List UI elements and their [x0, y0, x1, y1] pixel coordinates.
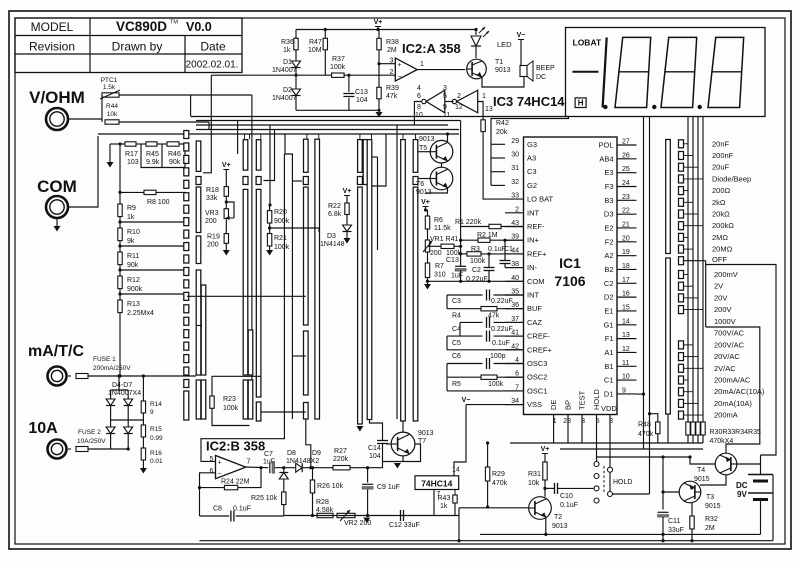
- svg-text:D2: D2: [604, 293, 614, 302]
- svg-text:C3: C3: [527, 167, 537, 176]
- svg-text:2V/AC: 2V/AC: [714, 364, 736, 373]
- wire T4 base: [690, 457, 715, 464]
- V- arrow below bar G: [356, 426, 363, 432]
- wire D8 to R27: [302, 467, 333, 469]
- svg-text:104: 104: [369, 453, 381, 460]
- range contacts DCV section: [679, 271, 684, 279]
- svg-text:11.5k: 11.5k: [434, 225, 451, 232]
- svg-text:REF-: REF-: [527, 222, 545, 231]
- switch bar G1b: [363, 140, 368, 185]
- wire HOLD to net: [613, 493, 650, 495]
- wire R44 to bus: [119, 121, 209, 123]
- svg-text:BP: BP: [564, 400, 573, 410]
- svg-text:R22: R22: [328, 203, 341, 210]
- svg-text:LED: LED: [497, 40, 512, 49]
- fuse FUSE2: [68, 448, 71, 450]
- wire R20/R21 junction: [270, 228, 319, 232]
- LCD H annunciator: [575, 98, 586, 108]
- V- arrow below R7: [427, 281, 429, 284]
- svg-text:20V/AC: 20V/AC: [714, 352, 740, 361]
- svg-text:V+: V+: [421, 199, 430, 206]
- svg-text:8: 8: [417, 104, 421, 111]
- svg-text:C10: C10: [560, 493, 573, 500]
- LCD minus sign: [572, 71, 598, 73]
- svg-text:C11: C11: [668, 518, 680, 525]
- svg-text:−: −: [218, 471, 222, 478]
- svg-text:470k: 470k: [492, 480, 508, 487]
- wire op-amp out to T1 base: [417, 69, 465, 71]
- svg-text:11: 11: [443, 112, 450, 119]
- svg-text:V+: V+: [541, 446, 550, 453]
- V- below R19: [225, 243, 227, 250]
- svg-text:C14: C14: [368, 445, 381, 452]
- svg-text:C2: C2: [472, 267, 481, 274]
- svg-text:2: 2: [457, 93, 461, 100]
- svg-text:C7: C7: [264, 451, 273, 458]
- svg-text:200mA/250V: 200mA/250V: [93, 365, 131, 372]
- svg-text:9k: 9k: [127, 238, 135, 245]
- DCV section box: [705, 261, 707, 327]
- svg-text:G2: G2: [527, 181, 537, 190]
- svg-text:200: 200: [205, 218, 217, 225]
- svg-text:R16: R16: [150, 450, 162, 457]
- svg-text:B3: B3: [604, 196, 613, 205]
- svg-text:0.99: 0.99: [150, 435, 163, 442]
- svg-text:0.1uF: 0.1uF: [560, 502, 578, 509]
- switch bar G2: [367, 140, 372, 420]
- wire node 237: [237, 121, 239, 155]
- svg-text:R32: R32: [705, 516, 718, 523]
- svg-text:20V: 20V: [714, 293, 727, 302]
- svg-text:IC1: IC1: [559, 255, 581, 271]
- svg-text:20uF: 20uF: [712, 163, 730, 172]
- bus wires top: [191, 116, 569, 118]
- svg-text:C6: C6: [452, 353, 461, 360]
- wire FUSE1 to switch: [88, 375, 196, 377]
- svg-text:10k: 10k: [528, 480, 540, 487]
- svg-text:B1: B1: [604, 362, 613, 371]
- svg-text:R23: R23: [223, 396, 236, 403]
- svg-text:1k: 1k: [440, 503, 448, 510]
- svg-text:R11: R11: [127, 253, 139, 260]
- svg-text:R28: R28: [316, 499, 329, 506]
- svg-text:IC2:A 358: IC2:A 358: [402, 41, 461, 56]
- svg-text:AB4: AB4: [599, 154, 613, 163]
- svg-text:R36: R36: [281, 39, 294, 46]
- V- arrow R17 node: [109, 144, 111, 162]
- wire COM to bus: [69, 136, 98, 207]
- range contact OFF: [679, 257, 684, 265]
- svg-text:D4-D7: D4-D7: [112, 382, 132, 389]
- wire bars to bus: [264, 130, 275, 181]
- wire pin DE down: [553, 415, 555, 444]
- svg-text:2M: 2M: [387, 47, 397, 54]
- svg-text:D2: D2: [283, 87, 292, 94]
- svg-text:2MΩ: 2MΩ: [712, 233, 728, 242]
- svg-text:Date: Date: [200, 40, 226, 54]
- svg-text:IN-: IN-: [527, 263, 538, 272]
- svg-text:74HC14: 74HC14: [421, 478, 452, 488]
- svg-text:G3: G3: [527, 140, 537, 149]
- svg-text:C1: C1: [604, 376, 614, 385]
- wire T5 T6 links: [418, 151, 431, 153]
- svg-text:G1: G1: [603, 320, 613, 329]
- svg-text:C2: C2: [604, 279, 614, 288]
- wire V- to 74HC14: [454, 405, 466, 476]
- svg-text:R20: R20: [274, 209, 287, 216]
- svg-text:DE: DE: [549, 400, 558, 410]
- wire T2 base: [459, 507, 529, 509]
- svg-text:9015: 9015: [705, 503, 721, 510]
- svg-text:10M: 10M: [308, 47, 322, 54]
- switch bar D: [256, 140, 261, 170]
- svg-text:20nF: 20nF: [712, 139, 730, 148]
- wire bridge bottom: [110, 434, 112, 449]
- svg-text:9V: 9V: [737, 490, 747, 499]
- svg-text:30: 30: [511, 152, 519, 159]
- wire R45 R46 box: [141, 144, 185, 168]
- svg-text:200nF: 200nF: [712, 151, 734, 160]
- diode D6: [106, 427, 115, 434]
- svg-text:R18: R18: [206, 187, 219, 194]
- switch bar B2: [201, 285, 206, 375]
- fuse FUSE1: [68, 375, 71, 377]
- svg-text:E1: E1: [604, 306, 613, 315]
- wire pin BP down: [567, 415, 569, 444]
- svg-text:C3: C3: [452, 298, 461, 305]
- svg-text:VSS: VSS: [527, 400, 542, 409]
- wire OFF to battery rail: [684, 260, 706, 262]
- wire bar tops to bus: [244, 134, 246, 139]
- svg-text:HOLD: HOLD: [592, 389, 601, 410]
- svg-text:470k: 470k: [638, 431, 654, 438]
- wire COM row: [428, 280, 524, 282]
- svg-text:E3: E3: [604, 168, 613, 177]
- wire 1000V section link: [706, 327, 760, 453]
- svg-text:220k: 220k: [333, 456, 349, 463]
- svg-text:100k: 100k: [274, 244, 290, 251]
- ground below COM: [56, 218, 58, 226]
- svg-text:IN+: IN+: [527, 236, 540, 245]
- diode D7: [124, 427, 133, 434]
- svg-text:T1: T1: [495, 59, 503, 66]
- IC U1 IC1 7106 body: [524, 137, 618, 415]
- node chain vertical: [460, 121, 462, 267]
- svg-text:9013: 9013: [419, 136, 435, 143]
- wire T3 base: [663, 491, 679, 493]
- wire R27 to C9/T7: [357, 467, 368, 469]
- svg-text:200V: 200V: [714, 305, 732, 314]
- svg-text:1k: 1k: [127, 214, 135, 221]
- svg-text:R44: R44: [106, 103, 118, 110]
- wire T4 collector to battery: [737, 464, 761, 475]
- svg-text:100k: 100k: [330, 64, 346, 71]
- svg-text:HOLD: HOLD: [613, 479, 632, 486]
- svg-text:R7: R7: [435, 263, 444, 270]
- wire PTC1 to node: [119, 94, 252, 96]
- svg-text:F3: F3: [605, 182, 614, 191]
- svg-text:BUF: BUF: [527, 304, 542, 313]
- svg-text:CAZ: CAZ: [527, 318, 542, 327]
- svg-text:9013: 9013: [418, 430, 434, 437]
- ground below R16: [142, 460, 144, 468]
- svg-text:DC: DC: [736, 481, 748, 490]
- svg-text:REF+: REF+: [527, 249, 547, 258]
- svg-text:100k: 100k: [223, 405, 239, 412]
- wire bar right bottom: [667, 414, 669, 443]
- svg-text:R10: R10: [127, 229, 140, 236]
- switch bar E: [304, 139, 309, 172]
- svg-text:1000V: 1000V: [714, 317, 736, 326]
- svg-text:20k: 20k: [496, 129, 508, 136]
- svg-text:D8: D8: [287, 450, 296, 457]
- svg-text:T5: T5: [419, 145, 427, 152]
- svg-text:F2: F2: [605, 237, 614, 246]
- svg-text:R4: R4: [452, 313, 461, 320]
- svg-text:D3: D3: [327, 233, 336, 240]
- svg-text:R24 22M: R24 22M: [221, 479, 250, 486]
- wire IC2:B output: [246, 466, 268, 469]
- wire R13 to fuse node: [119, 313, 121, 376]
- svg-text:9: 9: [150, 409, 154, 416]
- svg-text:R25 10k: R25 10k: [251, 495, 278, 502]
- switch bar B: [196, 141, 201, 171]
- svg-text:0.22uF: 0.22uF: [466, 276, 488, 283]
- svg-text:−: −: [398, 74, 402, 81]
- svg-text:C13: C13: [355, 89, 368, 96]
- svg-text:POL: POL: [598, 141, 613, 150]
- svg-text:2V: 2V: [714, 282, 723, 291]
- svg-text:A3: A3: [527, 154, 536, 163]
- svg-text:200mA/AC: 200mA/AC: [714, 376, 751, 385]
- svg-text:3: 3: [443, 85, 447, 92]
- svg-text:14: 14: [452, 467, 460, 474]
- svg-text:CREF-: CREF-: [527, 332, 550, 341]
- svg-text:2kΩ: 2kΩ: [712, 198, 726, 207]
- svg-text:R27: R27: [334, 448, 347, 455]
- svg-text:100k: 100k: [470, 258, 486, 265]
- svg-text:2: 2: [390, 69, 394, 76]
- LCD digit 4: [708, 37, 744, 107]
- wire HOLD aux: [609, 472, 611, 491]
- svg-text:310: 310: [434, 272, 446, 279]
- wire R23 top: [212, 376, 261, 396]
- svg-text:100k: 100k: [488, 381, 504, 388]
- svg-text:6: 6: [210, 468, 214, 475]
- svg-text:1: 1: [420, 61, 424, 68]
- svg-text:R45: R45: [146, 151, 159, 158]
- wire R7 bottom to COM rail: [427, 278, 429, 282]
- wire bus drop 285: [285, 134, 292, 419]
- svg-text:10k: 10k: [107, 111, 118, 118]
- wire OSC1 loop: [447, 390, 524, 392]
- capacitor C1: [500, 260, 511, 262]
- svg-text:T3: T3: [706, 494, 714, 501]
- svg-text:6: 6: [417, 93, 421, 100]
- svg-text:IC2:B 358: IC2:B 358: [206, 439, 265, 454]
- svg-text:D1: D1: [604, 389, 614, 398]
- svg-text:10A: 10A: [28, 420, 58, 437]
- wire LCD to IC1 bus: [643, 117, 645, 450]
- svg-text:OSC2: OSC2: [527, 373, 547, 382]
- switch bar C: [243, 140, 248, 170]
- wire C4 link: [459, 322, 461, 336]
- LCD digit 1: [603, 37, 607, 107]
- rail V- bottom: [480, 533, 761, 535]
- svg-text:2.25Mx4: 2.25Mx4: [127, 310, 154, 317]
- svg-text:F1: F1: [605, 334, 614, 343]
- svg-text:6.8k: 6.8k: [328, 211, 342, 218]
- svg-text:mA/T/C: mA/T/C: [28, 343, 84, 360]
- wire battery plus down: [772, 475, 774, 541]
- wire T7 base: [386, 443, 391, 445]
- svg-text:R12: R12: [127, 277, 140, 284]
- svg-text:33uF: 33uF: [668, 527, 684, 534]
- svg-text:R21: R21: [274, 235, 287, 242]
- svg-text:R6: R6: [434, 217, 443, 224]
- svg-text:C13: C13: [446, 257, 459, 264]
- svg-text:1N4148: 1N4148: [320, 241, 345, 248]
- svg-text:12: 12: [455, 104, 463, 111]
- wire bus drop 384: [372, 134, 386, 186]
- svg-text:Diode/Beep: Diode/Beep: [712, 174, 751, 183]
- wire T7 emitter loop: [383, 444, 421, 462]
- svg-text:1uF: 1uF: [451, 273, 463, 280]
- svg-text:9.9k: 9.9k: [146, 159, 160, 166]
- svg-text:R29: R29: [492, 471, 505, 478]
- svg-text:V0.0: V0.0: [186, 20, 212, 34]
- svg-text:OSC3: OSC3: [527, 359, 547, 368]
- switch bar right: [666, 140, 671, 254]
- svg-text:D9: D9: [312, 450, 321, 457]
- svg-text:103: 103: [127, 159, 139, 166]
- svg-text:0.1uF: 0.1uF: [233, 506, 251, 513]
- svg-text:C8: C8: [213, 506, 222, 513]
- svg-text:0.22uF: 0.22uF: [491, 326, 513, 333]
- svg-text:47k: 47k: [386, 93, 398, 100]
- svg-text:R46: R46: [168, 151, 181, 158]
- wire bridge mid: [110, 406, 112, 427]
- switch bar F: [315, 139, 320, 419]
- svg-text:T2: T2: [554, 514, 562, 521]
- svg-text:V+: V+: [222, 162, 231, 169]
- wire rail 443: [510, 442, 703, 444]
- HOLD switch: [594, 462, 599, 467]
- wire V+ rail: [296, 29, 476, 31]
- svg-text:20kΩ: 20kΩ: [712, 210, 730, 219]
- wire stub G2 aux: [372, 156, 378, 158]
- svg-text:200V/AC: 200V/AC: [714, 340, 745, 349]
- wire R11 junction: [120, 269, 186, 271]
- svg-text:31: 31: [511, 165, 519, 172]
- svg-text:7: 7: [247, 459, 251, 466]
- V- below R21: [269, 246, 271, 250]
- svg-text:1.5k: 1.5k: [103, 84, 116, 91]
- svg-text:1: 1: [482, 93, 486, 100]
- V- arrow below R39: [377, 109, 380, 112]
- svg-text:VR1 R41: VR1 R41: [430, 236, 459, 243]
- LCD digit 2: [615, 37, 651, 107]
- wire bridge top: [111, 389, 129, 391]
- V- arrow below T7: [394, 463, 401, 469]
- V- below D3: [346, 232, 348, 239]
- range bus lines: [687, 117, 689, 423]
- svg-text:90k: 90k: [169, 159, 181, 166]
- svg-text:OSC1: OSC1: [527, 386, 547, 395]
- svg-text:R43: R43: [438, 495, 451, 502]
- svg-text:+: +: [398, 62, 402, 69]
- svg-text:0.01: 0.01: [150, 458, 163, 465]
- svg-text:IC3 74HC14: IC3 74HC14: [493, 94, 565, 109]
- svg-text:OFF: OFF: [712, 255, 727, 264]
- wire D2/C13 bottom: [296, 109, 379, 111]
- svg-text:R9: R9: [127, 205, 136, 212]
- svg-text:R19: R19: [207, 234, 220, 241]
- svg-text:5: 5: [443, 93, 447, 100]
- svg-text:200: 200: [430, 250, 442, 257]
- svg-text:Revision: Revision: [29, 40, 75, 54]
- svg-text:9015: 9015: [694, 476, 710, 483]
- svg-text:9: 9: [443, 104, 447, 111]
- svg-text:2M: 2M: [705, 525, 715, 532]
- svg-text:0.22uF: 0.22uF: [491, 298, 513, 305]
- svg-text:+: +: [218, 460, 222, 467]
- svg-text:VR3: VR3: [205, 210, 219, 217]
- svg-text:R5: R5: [452, 381, 461, 388]
- svg-text:R17: R17: [125, 151, 138, 158]
- svg-text:COM: COM: [37, 177, 77, 196]
- svg-text:10A/250V: 10A/250V: [77, 438, 106, 445]
- svg-text:700V/AC: 700V/AC: [714, 329, 745, 338]
- wire pin D1 to LCD bus: [637, 393, 644, 395]
- LCD display: [566, 28, 766, 117]
- svg-text:B2: B2: [604, 265, 613, 274]
- wire R42 to LOBAT: [483, 132, 505, 200]
- svg-text:MODEL: MODEL: [31, 20, 74, 34]
- title block: [15, 18, 242, 73]
- svg-text:D3: D3: [604, 210, 614, 219]
- svg-text:33k: 33k: [206, 195, 218, 202]
- svg-text:A2: A2: [604, 251, 613, 260]
- wire D9 node up to switch: [306, 419, 311, 468]
- svg-text:R1 220k: R1 220k: [455, 219, 482, 226]
- svg-text:200kΩ: 200kΩ: [712, 221, 734, 230]
- svg-text:2002.02.01.: 2002.02.01.: [186, 60, 239, 71]
- svg-text:20mA(10A): 20mA(10A): [714, 399, 752, 408]
- svg-text:R37: R37: [332, 56, 345, 63]
- wire bar F to C14: [370, 420, 383, 441]
- switch contacts column A: [184, 131, 189, 139]
- IC 74HC14 box: [415, 476, 459, 490]
- switch contact A tall: [184, 391, 189, 420]
- svg-text:4: 4: [417, 85, 421, 92]
- svg-text:9013: 9013: [495, 67, 511, 74]
- svg-text:Drawn by: Drawn by: [112, 40, 163, 54]
- rail analog bottom: [284, 515, 459, 517]
- svg-text:R31: R31: [528, 471, 541, 478]
- svg-text:FUSE 2: FUSE 2: [78, 429, 101, 436]
- svg-text:32: 32: [511, 179, 519, 186]
- switch bar J: [413, 140, 418, 173]
- svg-text:R15: R15: [150, 426, 162, 433]
- wire T2 emitter: [545, 517, 547, 534]
- svg-text:100p: 100p: [490, 353, 506, 360]
- svg-text:7106: 7106: [554, 273, 585, 289]
- LCD decimal points: [603, 105, 607, 109]
- svg-text:VDD: VDD: [601, 404, 617, 413]
- svg-text:FUSE 1: FUSE 1: [93, 356, 116, 363]
- wire PTC node down: [251, 95, 253, 419]
